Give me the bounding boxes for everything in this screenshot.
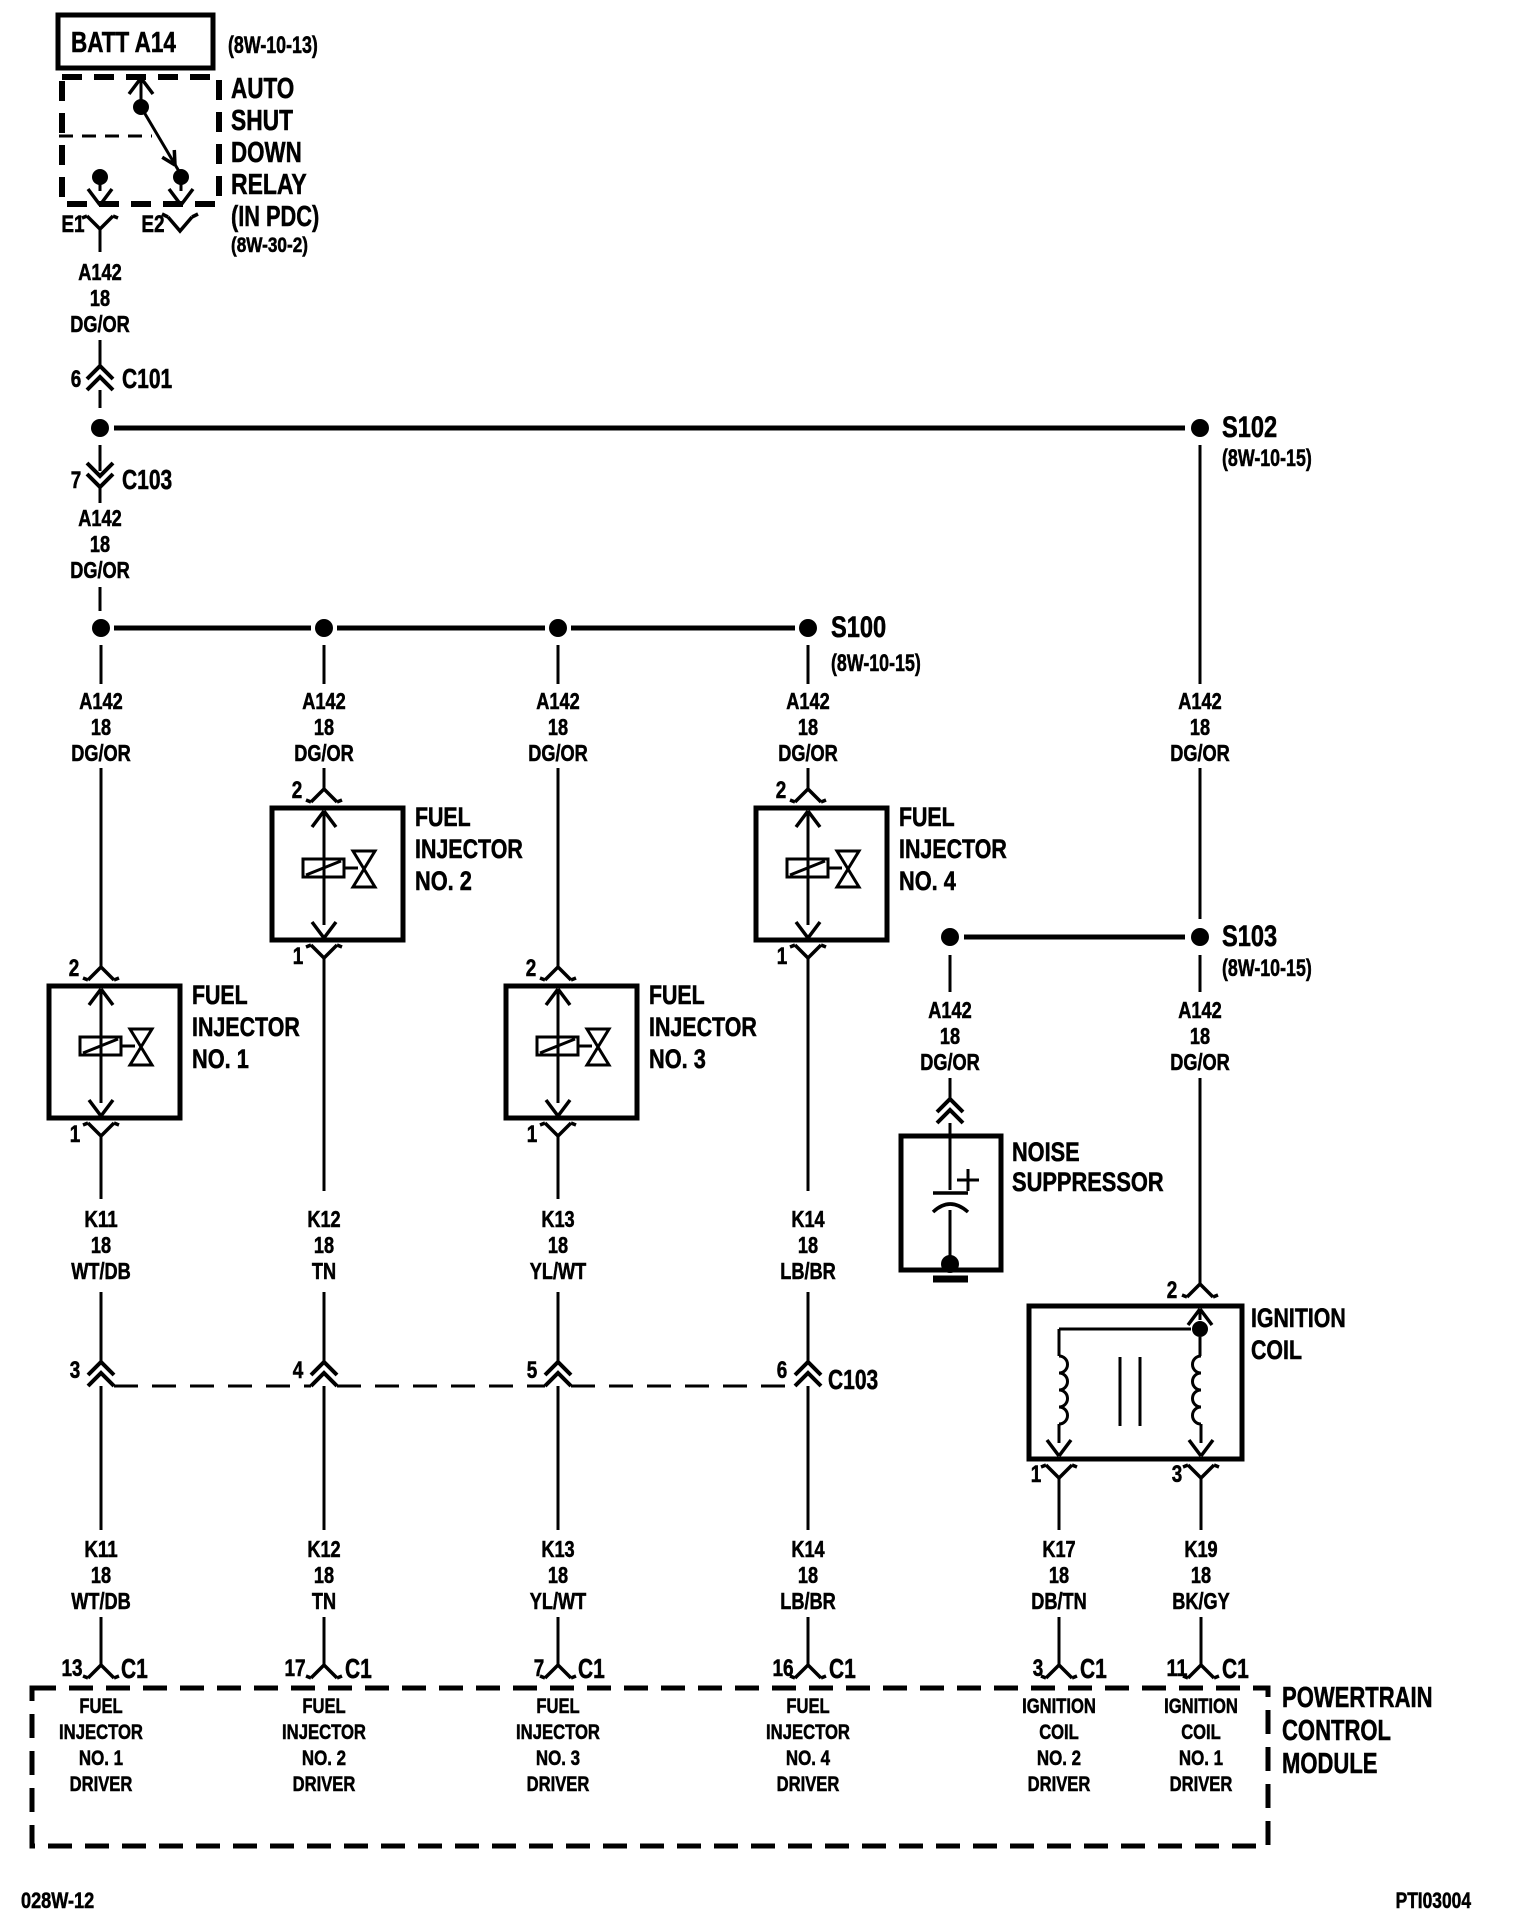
pin 1 connector of injector NO. 3 [540, 1123, 576, 1136]
svg-text:3: 3 [1172, 1461, 1183, 1488]
svg-text:18: 18 [90, 531, 110, 557]
svg-text:6: 6 [71, 366, 82, 393]
svg-text:18: 18 [798, 1562, 818, 1588]
svg-text:IGNITION: IGNITION [1251, 1303, 1346, 1333]
wire into PCM pin 3 [1058, 1617, 1061, 1665]
svg-text:NO. 2: NO. 2 [415, 866, 472, 896]
pin 1 connector of injector NO. 2 [306, 945, 342, 958]
svg-text:YL/WT: YL/WT [530, 1258, 587, 1284]
wire into PCM pin 16 [807, 1617, 810, 1665]
terminal E1 connector [82, 216, 118, 229]
svg-text:17: 17 [284, 1655, 305, 1682]
svg-text:A142: A142 [786, 688, 829, 714]
svg-text:NO. 1: NO. 1 [1179, 1747, 1223, 1770]
coil core [1119, 1357, 1122, 1426]
svg-text:A142: A142 [928, 997, 971, 1023]
svg-text:1: 1 [777, 943, 788, 970]
svg-text:WT/DB: WT/DB [71, 1588, 131, 1614]
wire into C103 row x=324 [323, 1292, 326, 1362]
svg-text:NO. 3: NO. 3 [536, 1747, 580, 1770]
wire below S100 x=808 [807, 645, 810, 684]
svg-text:A142: A142 [78, 505, 121, 531]
svg-text:FUEL: FUEL [79, 1695, 122, 1718]
svg-text:DG/OR: DG/OR [71, 740, 131, 766]
svg-text:(8W-10-15): (8W-10-15) [1222, 955, 1312, 982]
svg-text:A142: A142 [79, 688, 122, 714]
svg-text:K19: K19 [1184, 1536, 1217, 1562]
svg-text:NO. 2: NO. 2 [1037, 1747, 1081, 1770]
svg-text:NO. 2: NO. 2 [302, 1747, 346, 1770]
connector C1 pin 11 symbol [1183, 1665, 1219, 1678]
coil secondary winding [1193, 1356, 1202, 1424]
wire S102 down right column [1199, 445, 1202, 684]
svg-text:18: 18 [1049, 1562, 1069, 1588]
svg-text:11: 11 [1166, 1655, 1187, 1682]
injector NO. 1 valve symbol [121, 1045, 135, 1048]
coil primary lead down [1058, 1329, 1061, 1356]
relay internal divider dashed [59, 135, 152, 138]
svg-text:IGNITION: IGNITION [1022, 1695, 1096, 1718]
svg-text:1: 1 [70, 1121, 81, 1148]
injector NO. 3 internal bottom arrow [546, 1100, 570, 1116]
pin 2 connector of injector NO. 3 [540, 967, 576, 980]
wire into PCM pin 7 [557, 1617, 560, 1665]
pin 2 connector of injector NO. 1 [83, 967, 119, 980]
injector NO. 4 valve symbol [828, 867, 842, 870]
svg-text:18: 18 [1191, 1562, 1211, 1588]
svg-text:4: 4 [293, 1357, 304, 1384]
relay pin 30 arrow to BATT [129, 78, 153, 94]
svg-text:AUTO: AUTO [231, 73, 294, 105]
junction at S102 bus left [91, 419, 109, 437]
svg-text:S103: S103 [1222, 920, 1277, 953]
svg-text:2: 2 [292, 777, 303, 804]
splice S102 [1191, 419, 1209, 437]
svg-text:C103: C103 [122, 464, 172, 495]
connector C103 pin 6 symbol [795, 1362, 821, 1386]
noise suppressor ground dot [941, 1255, 959, 1273]
svg-text:6: 6 [777, 1357, 788, 1384]
pin 2 connector of injector NO. 2 [306, 789, 342, 802]
coil pin 1 connector [1041, 1465, 1077, 1478]
connector C1 pin 16 symbol [790, 1665, 826, 1678]
injector NO. 1 internal top arrow [89, 989, 113, 1005]
coil pin 1 internal arrow [1047, 1440, 1071, 1456]
svg-text:SUPPRESSOR: SUPPRESSOR [1012, 1167, 1164, 1197]
S100 dot col 1 [92, 619, 110, 637]
injector NO. 3 internal top arrow [546, 989, 570, 1005]
wire down to ignition coil pin 2 [1199, 1078, 1202, 1284]
svg-text:C101: C101 [122, 363, 172, 394]
battery feed box BATT A14 [58, 15, 213, 68]
svg-text:DRIVER: DRIVER [70, 1773, 133, 1796]
wire S103 to noise suppressor [949, 955, 952, 992]
svg-text:INJECTOR: INJECTOR [415, 834, 523, 864]
coil secondary lead [1199, 1337, 1202, 1356]
injector NO. 2 valve symbol [344, 867, 358, 870]
svg-text:NO. 3: NO. 3 [649, 1044, 706, 1074]
wire below S100 x=324 [323, 645, 326, 684]
wire below C103 row x=558 [557, 1386, 560, 1530]
wire into C103 row x=101 [100, 1292, 103, 1362]
svg-text:18: 18 [91, 714, 111, 740]
injector NO. 4 internal top arrow [796, 811, 820, 827]
svg-text:DG/OR: DG/OR [1170, 740, 1230, 766]
svg-text:18: 18 [940, 1023, 960, 1049]
wire out of injector NO. 2 [323, 958, 326, 1191]
svg-text:COIL: COIL [1181, 1721, 1221, 1744]
wire into PCM pin 17 [323, 1617, 326, 1665]
svg-text:C1: C1 [578, 1653, 605, 1684]
svg-text:DRIVER: DRIVER [1028, 1773, 1091, 1796]
wire E1 down [99, 229, 102, 252]
svg-text:C1: C1 [1222, 1653, 1249, 1684]
svg-text:FUEL: FUEL [786, 1695, 829, 1718]
svg-text:FUEL: FUEL [649, 980, 705, 1010]
S100 bus segment 3 [571, 626, 795, 631]
C103 dashed connector line [114, 1385, 311, 1388]
svg-text:FUEL: FUEL [192, 980, 248, 1010]
wire out of injector NO. 3 [557, 1136, 560, 1199]
svg-text:FUEL: FUEL [536, 1695, 579, 1718]
svg-text:3: 3 [1033, 1655, 1044, 1682]
ignition coil pin 2 connector [1182, 1284, 1218, 1297]
noise suppressor box [901, 1136, 1001, 1270]
svg-text:DG/OR: DG/OR [294, 740, 354, 766]
svg-text:028W-12: 028W-12 [21, 1888, 94, 1913]
auto shut down relay dashed box (in PDC) [62, 77, 219, 204]
svg-text:DRIVER: DRIVER [527, 1773, 590, 1796]
injector NO. 2 internal bottom arrow [312, 922, 336, 938]
svg-text:5: 5 [527, 1357, 538, 1384]
svg-text:DRIVER: DRIVER [777, 1773, 840, 1796]
connector C103 pin 3 symbol [88, 1362, 114, 1386]
relay pin E2 lead [180, 177, 183, 191]
relay switch arm [141, 107, 180, 173]
connector C101 symbol [87, 366, 113, 390]
wire into injector NO. 2 [323, 768, 326, 789]
svg-text:1: 1 [1031, 1461, 1042, 1488]
svg-text:COIL: COIL [1251, 1335, 1302, 1365]
wire below C103 row x=101 [100, 1386, 103, 1530]
coil primary winding [1059, 1356, 1068, 1424]
wire out of injector NO. 1 [100, 1136, 103, 1199]
injector NO. 1 internal bottom arrow [89, 1100, 113, 1116]
svg-text:WT/DB: WT/DB [71, 1258, 131, 1284]
wire down to C103 pin 7 [99, 445, 102, 471]
svg-text:K12: K12 [307, 1206, 340, 1232]
S100 bus segment 1 [114, 626, 311, 631]
connector C103 pin 5 symbol [545, 1362, 571, 1386]
wire into PCM pin 11 [1200, 1617, 1203, 1665]
svg-text:INJECTOR: INJECTOR [899, 834, 1007, 864]
svg-text:18: 18 [90, 285, 110, 311]
wire down to S100 [99, 587, 102, 611]
svg-text:BK/GY: BK/GY [1172, 1588, 1230, 1614]
wire K19 upper [1200, 1478, 1203, 1530]
svg-text:18: 18 [798, 714, 818, 740]
svg-text:IGNITION: IGNITION [1164, 1695, 1238, 1718]
relay pin E1 lead [99, 177, 102, 191]
svg-text:TN: TN [312, 1588, 336, 1614]
svg-text:NO. 1: NO. 1 [79, 1747, 123, 1770]
relay pin E1 contact dot [92, 169, 108, 185]
svg-text:1: 1 [293, 943, 304, 970]
svg-text:2: 2 [526, 955, 537, 982]
svg-text:18: 18 [1190, 1023, 1210, 1049]
noise suppressor internal lead [949, 1136, 952, 1190]
svg-text:INJECTOR: INJECTOR [59, 1721, 143, 1744]
wire above noise suppressor connector [949, 1078, 952, 1099]
svg-text:7: 7 [71, 467, 82, 494]
wire into PCM pin 13 [100, 1617, 103, 1665]
svg-text:S100: S100 [831, 611, 886, 644]
noise suppressor polarity plus sign [957, 1169, 979, 1191]
connector C103 pin 7 symbol [87, 463, 113, 487]
relay NO contact dot [173, 169, 189, 185]
injector NO. 4 solenoid coil [787, 859, 828, 877]
coil internal top arrow [1188, 1309, 1212, 1325]
svg-text:C103: C103 [828, 1364, 878, 1395]
svg-text:DG/OR: DG/OR [528, 740, 588, 766]
svg-text:INJECTOR: INJECTOR [192, 1012, 300, 1042]
svg-text:DG/OR: DG/OR [1170, 1049, 1230, 1075]
svg-text:C1: C1 [121, 1653, 148, 1684]
svg-text:K14: K14 [791, 1536, 824, 1562]
injector NO. 1 solenoid coil [80, 1037, 121, 1055]
relay common contact dot [133, 99, 149, 115]
svg-text:FUEL: FUEL [302, 1695, 345, 1718]
svg-text:YL/WT: YL/WT [530, 1588, 587, 1614]
svg-text:LB/BR: LB/BR [780, 1588, 836, 1614]
svg-text:7: 7 [534, 1655, 545, 1682]
svg-text:E1: E1 [61, 211, 84, 238]
svg-text:DG/OR: DG/OR [920, 1049, 980, 1075]
svg-text:A142: A142 [1178, 997, 1221, 1023]
wire into C103 row x=558 [557, 1292, 560, 1362]
svg-text:13: 13 [61, 1655, 82, 1682]
svg-text:DG/OR: DG/OR [778, 740, 838, 766]
svg-text:K13: K13 [541, 1536, 574, 1562]
svg-text:INJECTOR: INJECTOR [516, 1721, 600, 1744]
svg-text:PTI03004: PTI03004 [1396, 1888, 1472, 1913]
svg-text:A142: A142 [536, 688, 579, 714]
S100 dot col 3 [549, 619, 567, 637]
wire into injector NO. 4 [807, 768, 810, 789]
connector C1 pin 3 symbol [1041, 1665, 1077, 1678]
connector C1 pin 17 symbol [306, 1665, 342, 1678]
svg-text:S102: S102 [1222, 411, 1277, 444]
wire out of injector NO. 4 [807, 958, 810, 1191]
svg-text:2: 2 [69, 955, 80, 982]
svg-text:18: 18 [548, 714, 568, 740]
svg-text:C1: C1 [1080, 1653, 1107, 1684]
S103 dot left (to noise suppressor) [941, 928, 959, 946]
svg-text:NO. 1: NO. 1 [192, 1044, 249, 1074]
svg-text:K17: K17 [1042, 1536, 1075, 1562]
svg-text:C1: C1 [829, 1653, 856, 1684]
pin 1 connector of injector NO. 1 [83, 1123, 119, 1136]
svg-text:BATT A14: BATT A14 [71, 27, 176, 59]
svg-text:TN: TN [312, 1258, 336, 1284]
wire bus to S102 [114, 426, 1185, 431]
wire S103 down to coil [1199, 955, 1202, 992]
svg-text:INJECTOR: INJECTOR [282, 1721, 366, 1744]
svg-text:K12: K12 [307, 1536, 340, 1562]
S100 dot col 2 [315, 619, 333, 637]
wire into injector NO. 3 [557, 768, 560, 967]
svg-text:DG/OR: DG/OR [70, 557, 130, 583]
injector NO. 2 internal top arrow [312, 811, 336, 827]
wire below C103 [99, 487, 102, 503]
svg-text:18: 18 [548, 1232, 568, 1258]
injector NO. 4 internal bottom arrow [796, 922, 820, 938]
injector NO. 2 solenoid coil [303, 859, 344, 877]
svg-text:LB/BR: LB/BR [780, 1258, 836, 1284]
wire below C103 row x=324 [323, 1386, 326, 1530]
svg-text:(8W-10-15): (8W-10-15) [831, 650, 921, 677]
wire into injector NO. 1 [100, 768, 103, 967]
svg-text:E2: E2 [141, 211, 164, 238]
noise suppressor lead to ground [949, 1210, 952, 1256]
coil pin 3 connector [1183, 1465, 1219, 1478]
wire below S100 x=558 [557, 645, 560, 684]
coil pin 3 internal arrow [1189, 1440, 1213, 1456]
ground bar [933, 1276, 968, 1283]
wire into C103 row x=808 [807, 1292, 810, 1362]
injector NO. 3 solenoid coil [537, 1037, 578, 1055]
S103 bus line [964, 935, 1185, 940]
svg-text:DRIVER: DRIVER [1170, 1773, 1233, 1796]
svg-text:K13: K13 [541, 1206, 574, 1232]
svg-text:FUEL: FUEL [899, 802, 955, 832]
svg-text:SHUT: SHUT [231, 105, 293, 137]
coil internal top wire [1059, 1328, 1191, 1331]
svg-text:(8W-10-15): (8W-10-15) [1222, 445, 1312, 472]
powertrain control module dashed box [32, 1688, 1268, 1846]
svg-text:CONTROL: CONTROL [1282, 1715, 1391, 1747]
svg-text:18: 18 [91, 1232, 111, 1258]
svg-text:C1: C1 [345, 1653, 372, 1684]
injector NO. 3 valve symbol [578, 1045, 592, 1048]
svg-text:18: 18 [1190, 714, 1210, 740]
connector C1 pin 13 symbol [83, 1665, 119, 1678]
svg-text:DOWN: DOWN [231, 137, 302, 169]
svg-text:(8W-30-2): (8W-30-2) [231, 234, 308, 257]
svg-text:RELAY: RELAY [231, 169, 307, 201]
svg-text:NOISE: NOISE [1012, 1137, 1080, 1167]
pin 1 connector of injector NO. 4 [790, 945, 826, 958]
S100 bus segment 2 [337, 626, 545, 631]
svg-text:K11: K11 [84, 1536, 117, 1562]
svg-text:DRIVER: DRIVER [293, 1773, 356, 1796]
wire below S100 x=101 [100, 645, 103, 684]
coil internal junction dot [1192, 1321, 1208, 1337]
ignition coil box [1029, 1306, 1242, 1459]
svg-text:18: 18 [548, 1562, 568, 1588]
pin 2 connector of injector NO. 4 [790, 789, 826, 802]
noise suppressor capacitor plates [933, 1191, 968, 1195]
injector NO. 4 box [756, 808, 887, 940]
svg-text:18: 18 [91, 1562, 111, 1588]
splice S103 [1191, 928, 1209, 946]
svg-text:18: 18 [314, 1232, 334, 1258]
svg-text:3: 3 [70, 1357, 81, 1384]
svg-text:NO. 4: NO. 4 [786, 1747, 830, 1770]
wire K17 upper [1058, 1478, 1061, 1530]
svg-text:DG/OR: DG/OR [70, 311, 130, 337]
svg-text:INJECTOR: INJECTOR [649, 1012, 757, 1042]
svg-text:K14: K14 [791, 1206, 824, 1232]
wire down to S103 [1199, 768, 1202, 919]
svg-text:K11: K11 [84, 1206, 117, 1232]
wire down to C101 [99, 340, 102, 366]
svg-text:(8W-10-13): (8W-10-13) [228, 32, 318, 59]
svg-text:COIL: COIL [1039, 1721, 1079, 1744]
svg-text:NO. 4: NO. 4 [899, 866, 956, 896]
wire below C103 row x=808 [807, 1386, 810, 1530]
svg-text:POWERTRAIN: POWERTRAIN [1282, 1682, 1433, 1714]
svg-text:INJECTOR: INJECTOR [766, 1721, 850, 1744]
wire into noise suppressor [949, 1123, 952, 1136]
svg-text:A142: A142 [1178, 688, 1221, 714]
svg-text:(IN PDC): (IN PDC) [231, 201, 319, 233]
svg-text:2: 2 [776, 777, 787, 804]
svg-text:A142: A142 [302, 688, 345, 714]
terminal E2 connector [162, 214, 198, 231]
in-line connector above noise suppressor [937, 1099, 963, 1123]
svg-text:18: 18 [314, 714, 334, 740]
svg-text:18: 18 [798, 1232, 818, 1258]
injector NO. 3 box [506, 986, 637, 1118]
wire below C101 [99, 390, 102, 408]
svg-text:18: 18 [314, 1562, 334, 1588]
connector C103 pin 4 symbol [311, 1362, 337, 1386]
injector NO. 1 box [49, 986, 180, 1118]
svg-text:1: 1 [527, 1121, 538, 1148]
connector C1 pin 7 symbol [540, 1665, 576, 1678]
svg-text:MODULE: MODULE [1282, 1748, 1378, 1780]
svg-text:2: 2 [1167, 1277, 1178, 1304]
svg-text:FUEL: FUEL [415, 802, 471, 832]
injector NO. 2 box [272, 808, 403, 940]
S100 dot col 4 (splice S100) [799, 619, 817, 637]
svg-text:DB/TN: DB/TN [1031, 1588, 1087, 1614]
svg-text:A142: A142 [78, 259, 121, 285]
svg-text:16: 16 [772, 1655, 793, 1682]
